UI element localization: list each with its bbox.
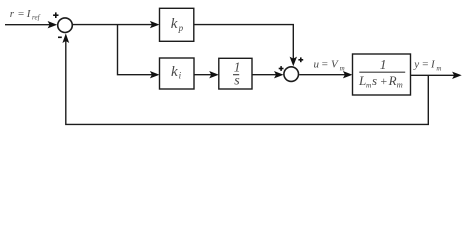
svg-text:=: = (17, 8, 24, 20)
svg-text:y: y (413, 59, 419, 71)
svg-text:m: m (436, 64, 441, 72)
svg-text:=: = (321, 58, 328, 70)
plus sum1 (53, 14, 58, 16)
arrowhead into ki (150, 71, 160, 78)
summing junction S1 (58, 18, 73, 33)
label kp (171, 16, 184, 33)
label r = I_ref (10, 8, 41, 21)
wire kp over and down to sum2 (194, 25, 293, 60)
svg-text:R: R (388, 73, 397, 88)
wire input r to sum1 (5, 24, 51, 26)
arrowhead into 1/s (209, 71, 219, 78)
wire plant to output (411, 74, 456, 76)
wire sum2 to plant (299, 74, 346, 76)
wire feedback loop (66, 40, 429, 124)
svg-text:V: V (331, 58, 339, 70)
block 1/s (219, 58, 252, 89)
arrowhead into sum1 (48, 21, 58, 28)
svg-text:i: i (179, 70, 182, 80)
svg-text:u: u (314, 58, 320, 70)
svg-text:=: = (422, 59, 429, 71)
block ki (160, 58, 195, 89)
block plant (353, 54, 411, 95)
arrowhead into sum2 left (274, 71, 284, 78)
arrowhead into kp (150, 21, 160, 28)
arrowhead into sum2 top (down) (290, 57, 297, 67)
wire ki to 1/s (194, 74, 212, 76)
label ki (171, 64, 182, 81)
svg-text:ref: ref (32, 13, 41, 21)
label 1/s (233, 60, 241, 89)
minus sum1 (58, 36, 62, 38)
block kp (160, 8, 194, 41)
svg-text:r: r (10, 8, 15, 20)
svg-text:I: I (26, 8, 32, 20)
svg-text:1: 1 (380, 57, 387, 72)
label y = Im (413, 59, 441, 73)
label plant 1/(Lms+Rm) (358, 57, 405, 90)
arrowhead into plant (343, 71, 353, 78)
svg-text:k: k (171, 64, 178, 80)
arrowhead output (452, 72, 462, 79)
svg-text:m: m (340, 64, 345, 72)
arrowhead feedback into sum1 bottom (up) (62, 33, 69, 43)
svg-text:p: p (178, 23, 184, 33)
wire sum1 to branch to kp (72, 24, 153, 26)
plus sum2 top (298, 59, 303, 61)
svg-text:k: k (171, 16, 178, 32)
wire branch down (118, 25, 154, 75)
svg-text:I: I (430, 59, 436, 71)
label u = Vm (314, 58, 345, 72)
svg-text:L: L (358, 73, 366, 88)
svg-text:1: 1 (234, 60, 241, 75)
wire 1/s to sum2 (252, 74, 277, 76)
svg-text:m: m (397, 80, 403, 90)
svg-text:s: s (372, 73, 377, 88)
svg-text:+: + (380, 74, 388, 88)
plus/minus signs (53, 12, 303, 71)
summing junction S2 (284, 67, 299, 82)
svg-text:s: s (234, 74, 240, 89)
plus sum2 left (279, 68, 284, 70)
